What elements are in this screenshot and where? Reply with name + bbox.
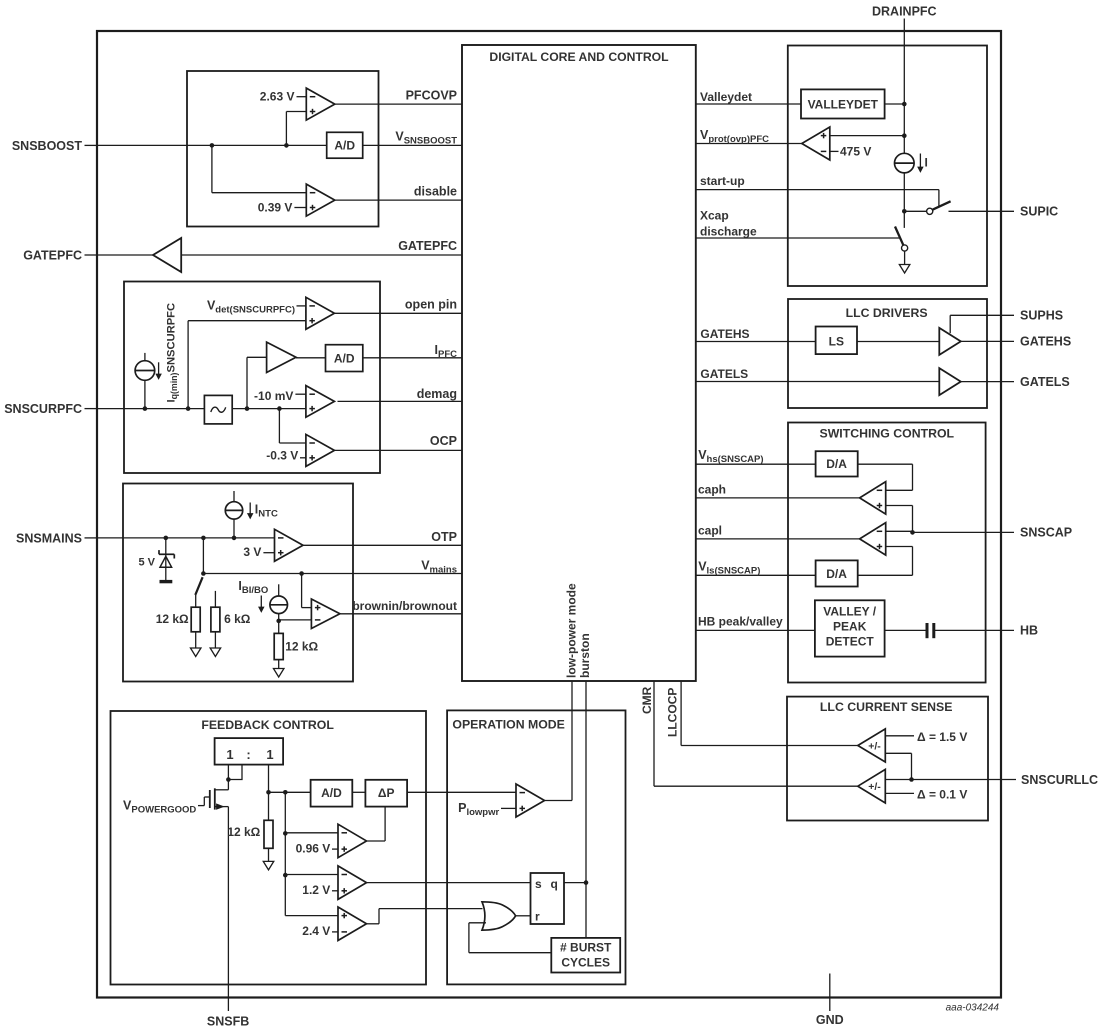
node junction Vmains tap [201,536,206,541]
wire D/A to caph comparator [858,463,913,465]
wire switch to ground [904,251,906,264]
driver triangle GATEPFC [153,238,181,272]
box FEEDBACK CONTROL [111,711,427,985]
svg-text:2.63 V: 2.63 V [260,89,295,103]
svg-text:SNSCAP: SNSCAP [1020,526,1072,540]
node junction current source [143,406,148,411]
arrow I direction [919,154,921,169]
svg-text:# BURST: # BURST [560,941,612,955]
svg-text:A/D: A/D [334,351,355,365]
wire GATEPFC pin to driver [97,254,153,256]
svg-text:DETECT: DETECT [826,635,875,649]
svg-text:SUPHS: SUPHS [1020,309,1063,323]
wire CMR [654,785,858,787]
comparator 0.39V disable [306,184,335,216]
svg-text:GATEPFC: GATEPFC [398,239,457,253]
wire GATEHS core to LS [696,341,816,343]
node junction SNSBOOST-ovp tap [284,143,289,148]
node junction Vmains comp tap [299,571,304,576]
driver triangle GATEHS [939,328,961,355]
wire 0.39V to plus input [294,207,306,209]
current source INTC [225,502,242,519]
driver triangle GATELS [939,368,961,395]
comparator capl [860,523,886,555]
comparator 475V Vprot [802,127,830,160]
wire SNSFB vertical [227,807,229,1011]
wire LLCOCP [681,745,858,747]
wire -0.3V to plus [300,457,306,459]
wire 1.2 minus [285,874,338,876]
comparator 3V OTP [275,529,304,561]
svg-text:burston: burston [578,633,592,678]
svg-text:12 kΩ: 12 kΩ [285,640,318,654]
svg-text:LLC CURRENT SENSE: LLC CURRENT SENSE [820,700,953,714]
svg-text:+/-: +/- [868,781,881,793]
filter block sine [204,395,232,424]
wire delta1.5 top input [885,735,914,737]
wire caph out to core [696,497,860,499]
svg-text:GND: GND [816,1013,844,1027]
current source IBI/BO [270,596,288,614]
amplifier IPFC [267,342,296,372]
svg-text:SNSCURLLC: SNSCURLLC [1021,773,1098,787]
svg-text:SWITCHING CONTROL: SWITCHING CONTROL [820,426,955,440]
svg-text:SNSMAINS: SNSMAINS [16,531,82,545]
node junction SNSCAP [910,530,915,535]
wire capacitor to HB pin [935,629,1014,631]
svg-text:capl: capl [698,523,722,537]
comparator brownin/brownout [311,599,340,629]
wire delta0.1 top input SNSCURLLC [885,779,911,781]
svg-text:HB peak/valley: HB peak/valley [698,615,783,629]
ground 6k brownin [210,648,221,657]
comparator caph [860,482,886,514]
svg-text:I: I [925,156,928,170]
arrow INTC direction [249,503,251,515]
svg-text:caph: caph [698,483,726,497]
svg-text:D/A: D/A [826,567,847,581]
block # BURST CYCLES [551,938,620,973]
wire 2.4 plus from chain [285,915,338,917]
svg-text:Xcap: Xcap [700,209,729,223]
wire GATELS out [961,381,1014,383]
block VALLEYDET [801,89,885,118]
comparator Plowpwr [516,784,545,817]
wire disable to core [335,199,462,201]
wire low-power mode output [545,800,573,802]
wire SUPIC out [949,210,1015,212]
wire capl out to core [696,538,860,540]
svg-text:Plowpwr: Plowpwr [458,801,499,818]
svg-text:PFCOVP: PFCOVP [406,89,457,103]
svg-text:ΔP: ΔP [378,786,395,800]
resistor 6k brownin [214,591,216,607]
comparator 2.4V [338,907,367,941]
wire VALLEYDET to drain line [885,103,905,105]
switch SUPIC [904,210,926,212]
wire drain to current source [903,136,905,154]
svg-text:DIGITAL CORE AND CONTROL: DIGITAL CORE AND CONTROL [489,50,669,64]
svg-text:FEEDBACK CONTROL: FEEDBACK CONTROL [201,718,334,732]
box LLC CURRENT SENSE [787,697,988,821]
svg-text:GATEHS: GATEHS [700,327,749,341]
svg-text:+/-: +/- [868,740,881,752]
svg-text:q: q [551,877,558,891]
ground xcap [899,265,910,274]
svg-text:OPERATION MODE: OPERATION MODE [452,718,565,732]
comparator 2.63V PFCOVP [306,88,335,120]
wire brownin minus from IBI/BO [279,619,312,621]
svg-text:OTP: OTP [431,530,457,544]
transistor VPOWERGOOD MOSFET [198,805,204,807]
box LLC DRIVERS [788,299,987,408]
node junction OCP tap [277,406,282,411]
svg-text:CMR: CMR [640,686,654,714]
wire LS to driver [857,341,939,343]
svg-text:Vdet(SNSCURPFC): Vdet(SNSCURPFC) [207,298,295,315]
svg-text:475 V: 475 V [840,144,871,158]
svg-text:DRAINPFC: DRAINPFC [872,5,937,19]
svg-text:start-up: start-up [700,174,745,188]
comparator delta 1.5V [858,729,886,762]
block deltaP [365,780,407,807]
wire SNSMAINS line [97,537,275,539]
svg-text:3 V: 3 V [243,545,261,559]
wire filter to demag comparator [232,408,306,410]
block LS level shifter [816,327,857,355]
wire Plowpwr label to plus [501,807,516,809]
svg-text:LLCOCP: LLCOCP [666,688,680,737]
wire demag to core [338,400,463,402]
svg-text:demag: demag [417,387,457,401]
node junction secondary [266,790,271,795]
wire amplifier input [247,356,267,358]
zener diode 5V [165,538,167,580]
svg-text:OCP: OCP [430,434,457,448]
wire PFCOVP to core [335,103,462,105]
pin GND [829,974,831,1012]
svg-text:PEAK: PEAK [833,620,867,634]
A/D converter block (IPFC) [326,345,363,372]
wire OR output to r [516,915,531,917]
switch brown-in select [195,577,202,595]
svg-text:Δ = 1.5 V: Δ = 1.5 V [917,730,967,744]
svg-text:GATELS: GATELS [700,367,748,381]
wire OCP to core [334,449,462,451]
wire GATELS core to driver [696,381,940,383]
comparator -0.3V OCP [306,434,335,466]
node junction SUPIC [902,209,907,214]
flip-flop s-r latch [531,873,565,924]
svg-text:Valleydet: Valleydet [700,90,752,104]
current source Iq(min)SNSCURPFC [135,361,155,381]
svg-text:0.39 V: 0.39 V [258,200,293,214]
wire HB peak/valley to block [696,629,815,631]
box SNSBOOST sense [187,71,379,227]
wire 3V to plus [263,552,274,554]
wire SNSBOOST line [97,144,327,146]
comparator 1.2V [338,866,367,900]
capacitor HB [926,623,929,638]
D/A converter block high side [816,451,858,476]
svg-text:SNSCURPFC: SNSCURPFC [4,402,82,416]
wire Vhs to D/A [696,463,816,465]
svg-text:VSNSBOOST: VSNSBOOST [395,130,457,147]
svg-text:brownin/brownout: brownin/brownout [352,599,457,613]
svg-text:D/A: D/A [826,457,847,471]
wire GATEPFC driver to core [181,254,462,256]
wire IPFC to core [363,357,462,359]
svg-text:Δ = 0.1 V: Δ = 0.1 V [917,787,967,801]
node junction Vmains corner [201,571,206,576]
svg-text:LLC DRIVERS: LLC DRIVERS [846,306,928,320]
svg-text:low-power mode: low-power mode [565,583,579,678]
svg-text:HB: HB [1020,624,1038,638]
svg-text:12 kΩ: 12 kΩ [156,612,189,626]
svg-text:5 V: 5 V [138,557,155,569]
svg-text:GATEPFC: GATEPFC [23,249,82,263]
wire amplifier to A/D [296,357,326,359]
resistor 12k feedback [268,792,270,820]
wire brownin plus from Vmains [301,574,303,608]
node junction valleydet [902,102,907,107]
box startup and xcap discharge [788,46,987,287]
arrow IBI/BO direction [260,596,262,609]
wire deltaP to Plowpwr comparator [407,791,516,793]
box SNSCURPFC sense [124,282,380,474]
wire Vls to D/A [696,574,816,576]
svg-text:SNSBOOST: SNSBOOST [12,139,83,153]
wire 2.63V to minus input [297,96,307,98]
box OPERATION MODE [447,710,625,984]
wire Vdet label to minus [297,305,306,307]
svg-text:open pin: open pin [405,298,457,312]
A/D converter block (SNSBOOST) [327,132,363,158]
node junction zener tap [164,536,169,541]
svg-text:IBI/BO: IBI/BO [238,579,268,596]
svg-text:SUPIC: SUPIC [1020,205,1058,219]
svg-text:A/D: A/D [321,786,342,800]
svg-text:s: s [535,877,542,891]
wire 1.2 output to flipflop s [366,882,531,884]
node junction SNSCURLLC [909,777,914,782]
wire SNSCURPFC line [97,408,204,410]
wire capl plus to D/A low side [886,546,913,548]
A/D converter block (feedback) [311,780,353,807]
wire GATEHS out [961,340,1014,342]
wire Vmains to core [203,573,462,575]
svg-text:GATEHS: GATEHS [1020,335,1071,349]
comparator 0.96V [338,824,367,858]
wire disable tap down and to minus [211,145,213,192]
svg-text:GATELS: GATELS [1020,375,1070,389]
comparator -10mV demag [306,386,335,418]
switch Xcap discharge [895,227,903,246]
wire A/D to deltaP [352,791,365,793]
wire plus from SNSCURPFC line [188,320,306,322]
svg-text:12 kΩ: 12 kΩ [227,825,260,839]
svg-text:VPOWERGOOD: VPOWERGOOD [123,799,196,816]
wire caph plus to SNSCAP node [886,505,913,507]
wire 2.4V to minus [332,931,338,933]
wire 0.96V to plus [332,848,338,850]
node junction q output [584,880,589,885]
svg-text:discharge: discharge [700,224,757,238]
wire -10mV to minus [295,393,306,395]
wire 2.4 output to OR gate [366,923,379,925]
outer IC boundary [97,31,1001,998]
block DIGITAL CORE AND CONTROL [462,45,696,681]
transformer 1:1 block [215,738,284,765]
wire to A/D feedback [269,791,311,793]
current source I startup [895,153,915,173]
node junction Vdet tap [186,406,191,411]
wire open pin to core [334,312,462,314]
ground 12k brownin [190,648,201,657]
wire source to supic junction [903,173,905,211]
wire SNSCURLLC out [912,779,1017,781]
svg-text:CYCLES: CYCLES [561,956,610,970]
svg-text:Vprot(ovp)PFC: Vprot(ovp)PFC [700,128,769,145]
wire delta0.1 bottom input [885,792,914,794]
ground 12k feedback [263,861,274,870]
wire 475 comp top input [830,135,905,137]
node junction amplifier tap [245,406,250,411]
svg-text:-0.3 V: -0.3 V [266,448,298,462]
box SWITCHING CONTROL [788,423,986,683]
svg-text:1: 1 [266,747,273,762]
node junction SNSBOOST-disable tap [210,143,215,148]
svg-text:1.2 V: 1.2 V [302,883,330,897]
ground 12k BI/BO [273,669,284,678]
svg-text:disable: disable [414,184,457,198]
svg-text:Vhs(SNSCAP): Vhs(SNSCAP) [698,448,763,465]
wire plus input from SNSBOOST [286,111,306,113]
wire Vprot output to core [696,143,802,145]
wire delta1.5 bottom input to node [885,752,911,754]
wire detect to capacitor [885,629,926,631]
wire start-up [696,189,939,191]
svg-text:VALLEYDET: VALLEYDET [808,97,879,111]
wire q output [564,882,586,884]
block VALLEY / PEAK DETECT [815,600,885,656]
wire SNSCAP out [913,531,1015,533]
wire Vmains vertical [202,538,204,574]
wire drain below supic [903,211,905,228]
svg-text:-10 mV: -10 mV [254,389,293,403]
wire comparator chain vertical [284,792,286,915]
node junction 475 comparator [902,133,907,138]
OR gate burst [482,902,516,930]
svg-text:Iq(min)SNSCURPFC: Iq(min)SNSCURPFC [166,303,180,403]
wire 0.96 output to deltaP [366,840,385,842]
svg-text:r: r [535,910,540,924]
svg-text:aaa-034244: aaa-034244 [946,1003,1000,1014]
box SNSMAINS sense [123,484,353,682]
node junction comparator chain tap [283,790,288,795]
svg-text:IPFC: IPFC [435,343,458,360]
wire SUPHS tap [949,315,951,333]
wire VSNSBOOST to core [363,144,462,146]
svg-text:2.4 V: 2.4 V [302,924,330,938]
wire OCP minus from line [278,409,280,443]
wire 0.96 minus [285,832,338,834]
node junction INTC [232,536,237,541]
svg-text:A/D: A/D [334,139,355,153]
svg-text:Vls(SNSCAP): Vls(SNSCAP) [698,560,760,577]
wire burst cycles feedback [468,923,470,953]
wire secondary winding down [268,765,270,793]
wire drain to 475 junction [903,104,905,136]
node junction 0.96 tap [283,831,288,836]
wire 1.2V to plus [332,890,338,892]
wire capl minus to SNSCAP node [886,530,913,532]
wire 475V label to bottom input [830,150,839,152]
node junction IBI/BO [276,619,281,624]
node junction 1.2 tap [283,873,288,878]
svg-text:1: 1 [226,747,233,762]
svg-text:SNSFB: SNSFB [207,1015,249,1029]
svg-text::: : [246,747,250,762]
wire Valleydet core to block [696,103,801,105]
svg-text:LS: LS [829,335,844,349]
D/A converter block low side [816,560,858,586]
wire OTP to core [303,544,462,546]
wire primary winding stub [228,765,242,780]
wire OR bottom input [469,922,486,924]
resistor 12k brownin [195,595,197,607]
node junction drain [226,777,231,782]
svg-text:VALLEY /: VALLEY / [823,605,877,619]
wire brownin/brownout to core [340,613,462,615]
svg-text:0.96 V: 0.96 V [296,842,331,856]
resistor 12k BI/BO [278,621,280,634]
svg-text:6 kΩ: 6 kΩ [224,612,251,626]
svg-text:INTC: INTC [255,503,278,520]
comparator Vdet open pin [306,297,335,329]
comparator delta 0.1V [858,769,886,803]
arrow current direction Iq [158,362,160,375]
wire xcap discharge [696,237,900,239]
wire DRAINPFC vertical [903,19,905,105]
wire burston vertical [585,681,587,938]
